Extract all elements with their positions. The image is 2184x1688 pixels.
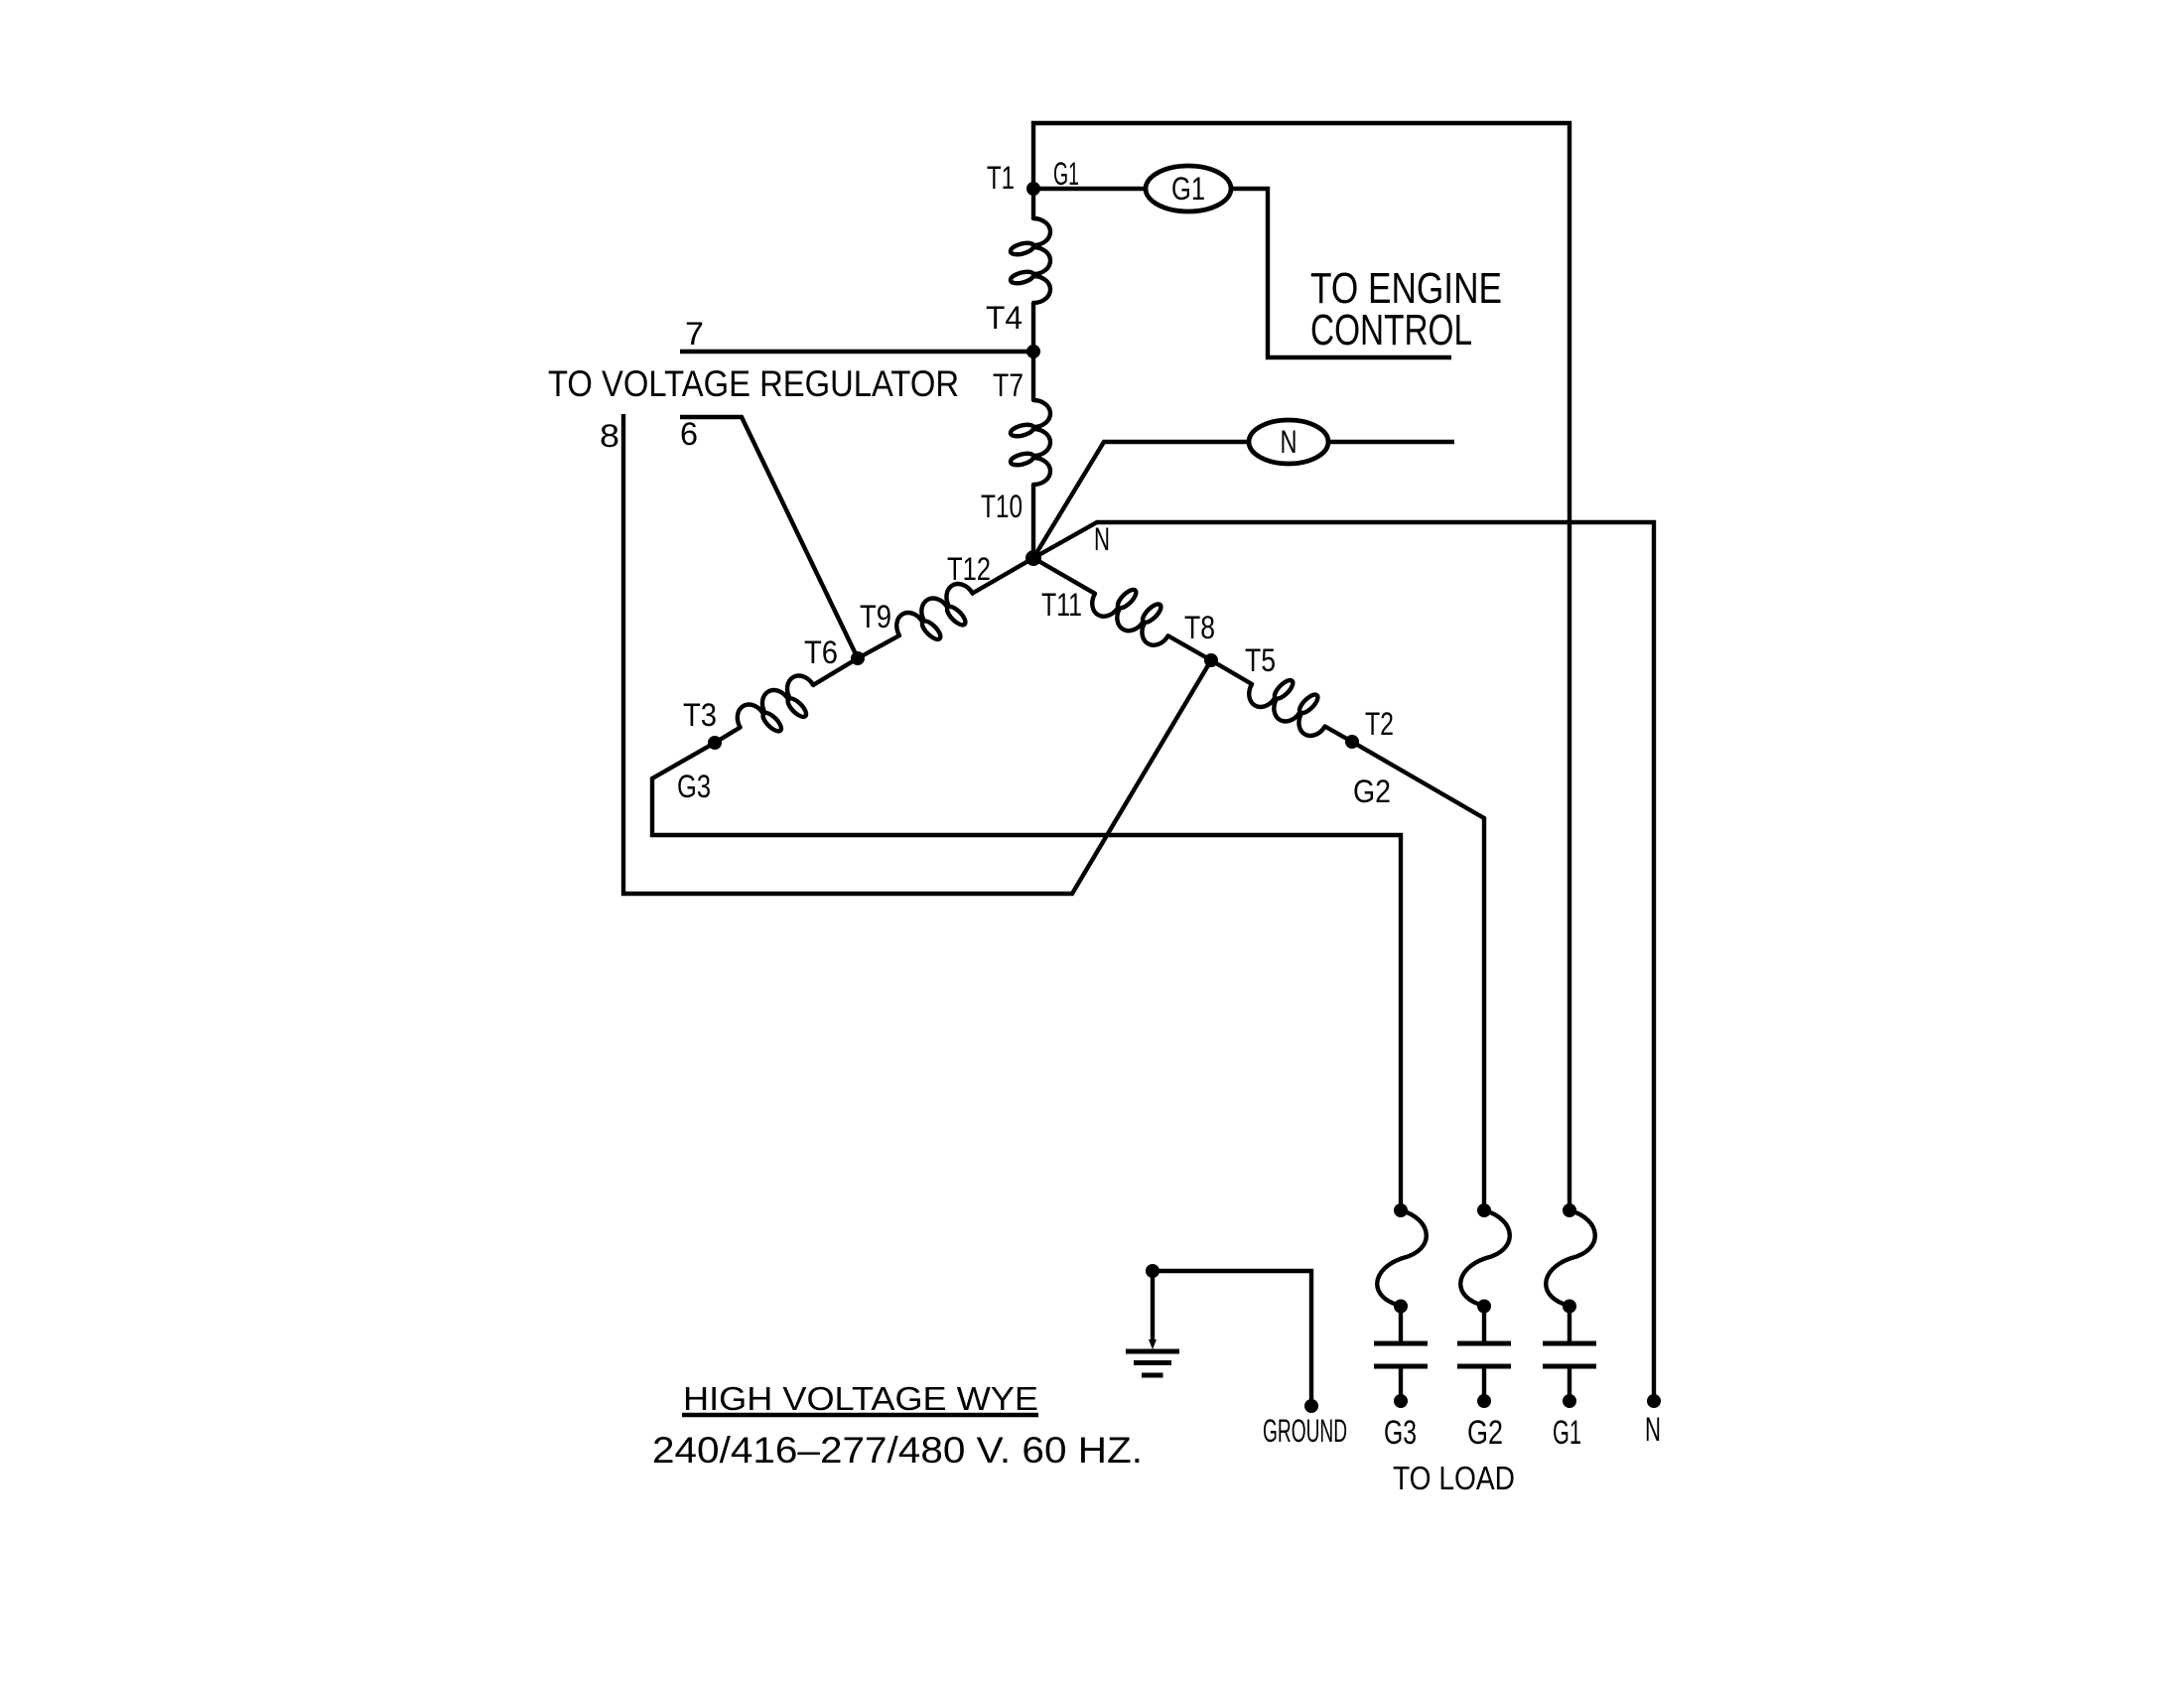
svg-text:G2: G2: [1467, 1414, 1503, 1452]
svg-text:G1: G1: [1053, 156, 1079, 192]
ground arrow: [1149, 1339, 1157, 1349]
wire T2 to G2 riser: [1352, 742, 1484, 1210]
svg-text:G3: G3: [677, 769, 711, 804]
ground wire: [1153, 1271, 1311, 1406]
svg-text:HIGH VOLTAGE WYE: HIGH VOLTAGE WYE: [683, 1380, 1038, 1417]
svg-text:TO VOLTAGE REGULATOR: TO VOLTAGE REGULATOR: [548, 363, 959, 404]
wire T6 to T3 winding lead: [813, 658, 858, 685]
wire 8 to voltage regulator: [623, 414, 1211, 894]
wire T4 to T7: [1031, 352, 1035, 400]
winding T5-T2: [1244, 664, 1337, 741]
capacitor G3: [1399, 1307, 1403, 1342]
wire T3 to G3 riser: [652, 743, 1401, 1210]
winding T1-T4: [1011, 218, 1050, 303]
capacitor G1: [1568, 1307, 1571, 1342]
wire G1 meter to engine control: [1231, 189, 1451, 357]
svg-text:8: 8: [600, 418, 619, 454]
wire T10 to star point: [1031, 485, 1035, 558]
node N terminal: [1647, 1394, 1661, 1408]
winding T12-T9: [891, 579, 985, 655]
circuit breaker G2: [1477, 1203, 1491, 1217]
wire 7 to voltage regulator: [680, 350, 1033, 353]
winding T12-T11: [1087, 574, 1180, 650]
wire winding to T3: [715, 728, 741, 744]
svg-text:T7: T7: [993, 367, 1024, 403]
svg-text:G2: G2: [1353, 774, 1391, 809]
capacitor G2: [1482, 1307, 1486, 1342]
winding T7-T10: [1011, 400, 1050, 485]
wire T1 to winding: [1031, 189, 1035, 219]
wire T1 to G1 meter: [1033, 187, 1146, 191]
svg-text:T6: T6: [804, 634, 838, 670]
svg-text:T10: T10: [981, 489, 1023, 524]
node T3: [708, 736, 722, 750]
svg-text:T5: T5: [1245, 642, 1276, 678]
svg-text:TO LOAD: TO LOAD: [1393, 1460, 1515, 1496]
svg-text:G1: G1: [1171, 171, 1205, 207]
svg-text:N: N: [1094, 521, 1110, 557]
svg-text:T2: T2: [1365, 706, 1394, 742]
node T2: [1345, 735, 1359, 749]
svg-text:T9: T9: [860, 599, 891, 634]
svg-text:T12: T12: [947, 551, 991, 587]
svg-text:T3: T3: [683, 697, 717, 733]
meter oval N: [1249, 420, 1328, 464]
wire T11 to T8: [1168, 636, 1211, 661]
circuit breaker G3: [1394, 1203, 1408, 1217]
svg-text:G1: G1: [1553, 1414, 1581, 1452]
wire star point to left winding: [971, 558, 1033, 594]
svg-text:T1: T1: [987, 160, 1015, 196]
wire T8 to T5 winding: [1211, 660, 1252, 684]
svg-text:7: 7: [685, 316, 704, 352]
wire winding to T2: [1325, 727, 1352, 743]
wire 6 to voltage regulator: [680, 417, 858, 658]
svg-text:240/416–277/480 V. 60 HZ.: 240/416–277/480 V. 60 HZ.: [652, 1430, 1143, 1471]
svg-text:N: N: [1281, 424, 1297, 460]
svg-text:6: 6: [680, 416, 698, 452]
node T8: [1204, 653, 1218, 667]
svg-text:N: N: [1645, 1411, 1661, 1449]
svg-text:T4: T4: [986, 300, 1023, 336]
svg-text:CONTROL: CONTROL: [1310, 306, 1472, 354]
svg-text:T8: T8: [1184, 610, 1215, 645]
node T4: [1026, 345, 1040, 358]
wire N meter stub right: [1328, 440, 1454, 444]
star point node T12/N: [1025, 550, 1041, 566]
wire top rail from T1 up across to right and down to G1 breaker: [1033, 123, 1570, 1210]
wire star point to N meter: [1033, 442, 1249, 558]
wire T9 to T6: [858, 635, 899, 658]
svg-text:G3: G3: [1384, 1414, 1417, 1452]
svg-text:T11: T11: [1041, 587, 1082, 623]
circuit breaker G1: [1563, 1203, 1576, 1217]
svg-text:GROUND: GROUND: [1263, 1413, 1347, 1449]
node T6: [851, 651, 865, 665]
wire star point to right winding: [1033, 558, 1095, 594]
ground symbol: [1126, 1349, 1179, 1354]
wire coil lead to T4: [1031, 303, 1035, 352]
winding T6-T3: [732, 670, 825, 747]
meter oval G1: [1146, 166, 1231, 211]
node T1: [1026, 182, 1040, 196]
wire star point to N terminal: [1033, 522, 1654, 1401]
